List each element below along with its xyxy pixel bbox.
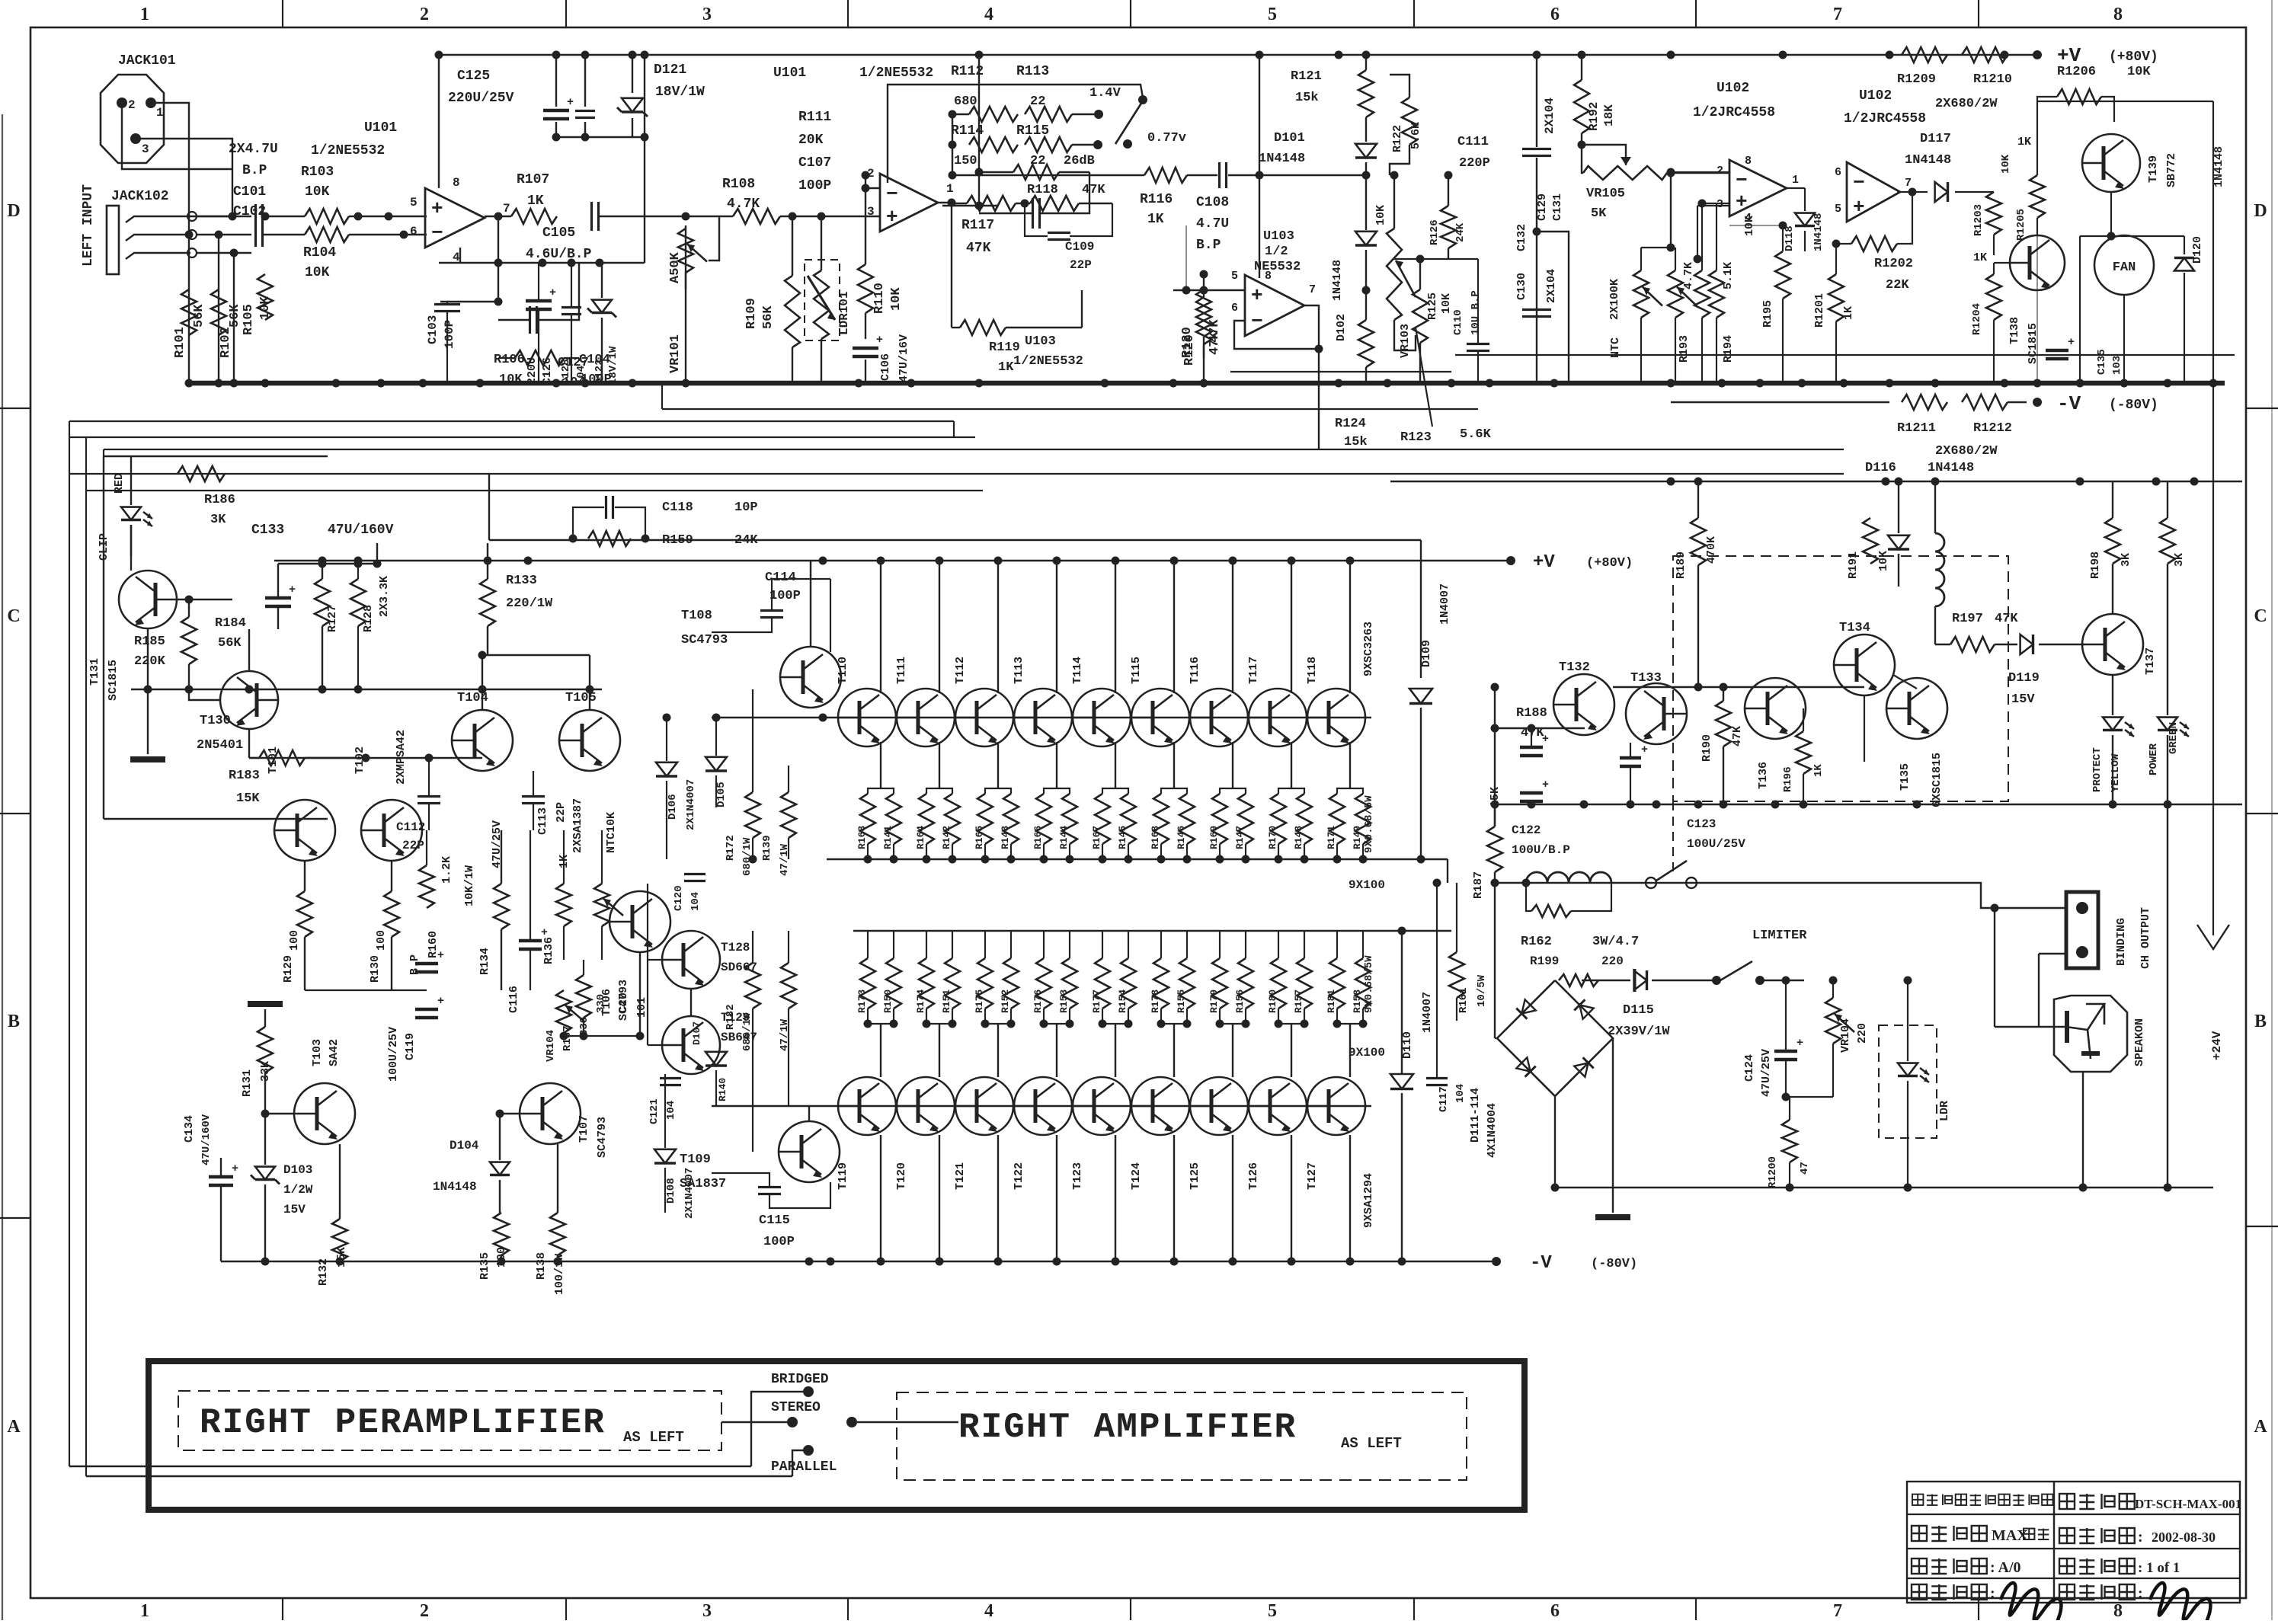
svg-text:1: 1 xyxy=(140,5,149,24)
svg-text:T132: T132 xyxy=(1559,660,1590,675)
title block page row xyxy=(2059,1558,2075,1574)
svg-text:9X0.68/5W: 9X0.68/5W xyxy=(1363,795,1375,853)
svg-text:LEFT INPUT: LEFT INPUT xyxy=(81,184,96,267)
svg-text:26dB: 26dB xyxy=(1064,154,1095,168)
svg-text:C120: C120 xyxy=(673,885,685,911)
svg-text:3: 3 xyxy=(702,5,712,24)
svg-text:R170: R170 xyxy=(1267,826,1278,849)
scan edge line left xyxy=(2,114,3,1620)
resistor R135 100 vertical xyxy=(494,1213,509,1255)
svg-text:10P: 10P xyxy=(734,500,758,515)
svg-text:R135: R135 xyxy=(478,1252,491,1280)
resistor R193 4.7K vertical xyxy=(1694,270,1710,318)
transistor T132 xyxy=(1553,674,1614,735)
svg-text:4.7K: 4.7K xyxy=(727,197,760,212)
resistor pair under T113 xyxy=(1036,794,1051,844)
svg-text:R197: R197 xyxy=(1952,612,1983,626)
feedback R106/C104 loop xyxy=(529,306,531,334)
resistor R161 10/5W vertical xyxy=(1449,952,1464,998)
svg-text:10K/1W: 10K/1W xyxy=(463,865,476,906)
svg-text:9X0.68/5W: 9X0.68/5W xyxy=(1363,955,1375,1013)
svg-text:SA1837: SA1837 xyxy=(680,1177,726,1191)
svg-text:10K: 10K xyxy=(2000,154,2012,174)
transistor T120 xyxy=(897,1077,955,1135)
svg-text:100/1W: 100/1W xyxy=(553,1254,566,1295)
resistor R111 20K xyxy=(979,171,1013,173)
+V +80V terminal xyxy=(2033,50,2042,59)
zener D121 18V/1W xyxy=(622,98,643,112)
transistor T101 xyxy=(274,800,335,861)
svg-text:R172: R172 xyxy=(725,835,737,861)
svg-text:C127: C127 xyxy=(558,356,589,370)
bus row1 emitters xyxy=(827,858,1448,860)
svg-text:C107: C107 xyxy=(798,155,831,171)
svg-text:LIMITER: LIMITER xyxy=(1752,929,1807,943)
grid ticks left xyxy=(0,408,30,409)
svg-text:47: 47 xyxy=(1799,1162,1811,1175)
svg-text:6: 6 xyxy=(1231,302,1238,315)
svg-text:24K: 24K xyxy=(734,533,758,548)
diode D120 xyxy=(2174,258,2194,271)
svg-text:1K: 1K xyxy=(527,193,544,209)
svg-text:NTC: NTC xyxy=(1609,337,1622,358)
svg-text:220U/25V: 220U/25V xyxy=(448,91,514,106)
svg-text:T104: T104 xyxy=(457,691,488,705)
svg-text:R184: R184 xyxy=(215,616,246,631)
svg-text:D109: D109 xyxy=(1420,640,1433,667)
svg-text:C109: C109 xyxy=(1065,240,1094,254)
svg-text:2002-08-30: 2002-08-30 xyxy=(2152,1530,2216,1545)
electrolytic C134 47U/160V xyxy=(209,1175,233,1179)
svg-text:10K: 10K xyxy=(1440,293,1453,314)
svg-text:1K: 1K xyxy=(998,360,1014,375)
resistor R127 vertical xyxy=(315,579,330,626)
title block doc number label xyxy=(2059,1494,2075,1509)
transistor T126 xyxy=(1249,1077,1307,1135)
svg-text:+: + xyxy=(437,949,444,962)
transistor T133 xyxy=(1626,683,1687,744)
resistor pair under T119 bank2 xyxy=(860,958,875,1009)
svg-text:2X680/2W: 2X680/2W xyxy=(1935,97,1998,111)
wire speakon to bottom xyxy=(2082,1072,2084,1188)
svg-text:1K: 1K xyxy=(2017,136,2031,149)
svg-text:R114: R114 xyxy=(951,123,984,139)
svg-text:T125: T125 xyxy=(1189,1162,1201,1190)
svg-text:0.77v: 0.77v xyxy=(1147,131,1186,145)
svg-text:D121: D121 xyxy=(654,62,686,78)
mid bus 9X100 xyxy=(853,930,1451,932)
svg-text:C121: C121 xyxy=(648,1098,661,1124)
scan edge line right xyxy=(2271,0,2273,1620)
svg-text:2XSA1387: 2XSA1387 xyxy=(571,798,584,853)
svg-text:8: 8 xyxy=(2113,1601,2123,1620)
svg-text:NTC10K: NTC10K xyxy=(605,812,618,853)
transistor T127 xyxy=(1307,1077,1365,1135)
svg-text:1: 1 xyxy=(156,106,164,120)
zener D122 18V/1W xyxy=(592,300,612,313)
svg-text:R152: R152 xyxy=(1000,989,1011,1013)
svg-text:15V: 15V xyxy=(2011,692,2035,707)
transistor T124 xyxy=(1131,1077,1189,1135)
dashed protection box xyxy=(1673,556,2008,801)
svg-text:T107: T107 xyxy=(577,1115,590,1143)
resistor pair under T117 xyxy=(1271,794,1286,844)
-V -80V rail xyxy=(1671,401,1889,403)
svg-text:C: C xyxy=(2254,606,2267,626)
svg-text:15k: 15k xyxy=(1295,91,1319,105)
svg-text:R156: R156 xyxy=(1234,989,1246,1013)
svg-text:SPEAKON: SPEAKON xyxy=(2133,1018,2146,1066)
wire output line to limiter xyxy=(1495,882,1691,884)
wire VR104 node xyxy=(564,1035,640,1037)
svg-text:1N4148: 1N4148 xyxy=(1331,260,1344,301)
svg-text:8: 8 xyxy=(453,176,460,190)
svg-text:100U/25V: 100U/25V xyxy=(387,1027,400,1082)
svg-text:D101: D101 xyxy=(1274,131,1305,145)
svg-text:+: + xyxy=(1796,1037,1803,1050)
resistor R113 22 xyxy=(1025,107,1072,122)
svg-text:220: 220 xyxy=(1601,954,1624,968)
svg-text:22K: 22K xyxy=(1886,278,1909,293)
svg-text:SC1815: SC1815 xyxy=(107,660,120,701)
wire VR105 to U102 pin2 xyxy=(1667,172,1729,174)
svg-text:R198: R198 xyxy=(2089,551,2102,579)
svg-text:R199: R199 xyxy=(1530,954,1559,968)
capacitor C112 22P xyxy=(418,795,440,798)
svg-text:(+80V): (+80V) xyxy=(1586,556,1633,571)
svg-text:220U: 220U xyxy=(526,357,539,385)
svg-text:A: A xyxy=(7,1417,21,1437)
svg-text::: : xyxy=(2138,1529,2143,1546)
capacitor C121 104 xyxy=(660,1077,681,1079)
svg-text:B.P: B.P xyxy=(242,163,267,178)
svg-text:22P: 22P xyxy=(555,802,568,823)
svg-text:C124: C124 xyxy=(1743,1054,1756,1082)
svg-text:R174: R174 xyxy=(915,989,926,1013)
resistor R121 15k vertical xyxy=(1358,70,1374,117)
wire C122 node xyxy=(1495,727,1585,729)
pot VR104 330 xyxy=(556,990,571,1033)
resistor R128 vertical xyxy=(350,579,366,626)
svg-text:15k: 15k xyxy=(1344,435,1368,449)
svg-text:T108: T108 xyxy=(681,609,712,623)
diode D110 1N4007 xyxy=(1390,1074,1413,1089)
transistor T106 SC4793 xyxy=(609,891,670,952)
svg-text:D118: D118 xyxy=(1784,225,1796,251)
resistor R116 1K xyxy=(1144,168,1187,183)
resistor R125 10K vertical xyxy=(1413,289,1428,343)
svg-text:3: 3 xyxy=(142,142,149,156)
svg-text:680/1W: 680/1W xyxy=(741,1012,753,1051)
svg-text:1K: 1K xyxy=(1812,764,1825,777)
transistor T117 xyxy=(1249,689,1307,746)
svg-text:R101: R101 xyxy=(173,327,187,358)
transistor T105 xyxy=(559,710,620,771)
svg-text:R102: R102 xyxy=(219,327,233,358)
svg-text:T128: T128 xyxy=(721,941,750,954)
svg-text:3: 3 xyxy=(702,1601,712,1620)
svg-text:B: B xyxy=(8,1012,20,1031)
svg-text:+: + xyxy=(567,96,574,109)
diode chain D101 xyxy=(1365,54,1367,70)
wire vertical R112 bank tie xyxy=(952,114,953,175)
svg-text:R195: R195 xyxy=(1761,300,1774,328)
svg-text:10K: 10K xyxy=(889,287,904,311)
svg-text:1/2NE5532: 1/2NE5532 xyxy=(311,143,385,158)
svg-text:R148: R148 xyxy=(1293,826,1304,849)
svg-text:4X1N4004: 4X1N4004 xyxy=(1486,1103,1499,1158)
wire to R103/R104 xyxy=(264,216,305,217)
svg-text:C20: C20 xyxy=(617,993,630,1013)
wire T108 emitter to base line xyxy=(810,561,811,647)
svg-text:BINDING: BINDING xyxy=(2115,918,2128,966)
svg-text:A: A xyxy=(2254,1417,2267,1437)
svg-text:VR105: VR105 xyxy=(1586,187,1625,201)
svg-text:R168: R168 xyxy=(1150,826,1161,849)
svg-text:D122: D122 xyxy=(593,359,606,385)
svg-text:+: + xyxy=(876,334,883,347)
wire U103b out xyxy=(1304,305,1319,349)
svg-text:6: 6 xyxy=(1550,1601,1560,1620)
resistor R118 47K xyxy=(1030,196,1079,211)
svg-text:T115: T115 xyxy=(1130,657,1143,684)
svg-text:1/2W: 1/2W xyxy=(283,1183,313,1197)
resistor R159 24K inline xyxy=(588,531,631,546)
wire loop vertical right xyxy=(2212,101,2214,935)
wire bridge left to R187 xyxy=(1494,883,1496,1038)
svg-text:2X39V/1W: 2X39V/1W xyxy=(1608,1025,1670,1039)
BINDING connector xyxy=(2066,892,2098,968)
svg-text:+V: +V xyxy=(2057,44,2081,67)
wire loop verticals left xyxy=(69,421,70,1466)
svg-text:R110: R110 xyxy=(872,283,887,314)
wire led to T131 xyxy=(130,456,132,488)
resistor R197 47K xyxy=(1950,637,1995,652)
svg-text:R116: R116 xyxy=(1140,192,1173,207)
svg-text:104: 104 xyxy=(562,376,586,390)
svg-text:C134: C134 xyxy=(183,1115,196,1143)
U101b pin2 wire xyxy=(865,187,880,189)
svg-text:C113: C113 xyxy=(536,807,549,835)
wire left mid join xyxy=(305,989,427,991)
svg-text:4: 4 xyxy=(984,5,993,24)
svg-text:T110: T110 xyxy=(837,657,849,684)
svg-text:10K: 10K xyxy=(258,296,273,320)
svg-text:T138: T138 xyxy=(2008,317,2021,344)
svg-text:5: 5 xyxy=(1268,5,1277,24)
svg-text:R1210: R1210 xyxy=(1973,72,2012,87)
svg-text:R150: R150 xyxy=(882,989,894,1013)
svg-text:T131: T131 xyxy=(88,658,101,686)
svg-text:1N4007: 1N4007 xyxy=(1421,992,1434,1033)
svg-text:9XSC3263: 9XSC3263 xyxy=(1362,622,1375,676)
resistor R190 47K vertical xyxy=(1716,701,1731,746)
svg-text:8: 8 xyxy=(1745,155,1752,168)
svg-text:C115: C115 xyxy=(759,1213,790,1228)
svg-text:220P: 220P xyxy=(1459,156,1490,171)
resistor R1203 vertical xyxy=(1986,192,2001,235)
svg-text:R125: R125 xyxy=(1426,293,1439,320)
wire U102b out to D117 xyxy=(1897,191,1928,193)
svg-text:D119: D119 xyxy=(2008,671,2040,686)
svg-text:4.7U: 4.7U xyxy=(1196,216,1229,232)
svg-text:R155: R155 xyxy=(1176,989,1187,1013)
svg-text:T137: T137 xyxy=(2144,647,2157,675)
wire U103 output runs xyxy=(1455,354,2235,356)
svg-text:47K: 47K xyxy=(1208,331,1222,355)
svg-text:2X3.3K: 2X3.3K xyxy=(378,576,391,617)
svg-text:: A/0: : A/0 xyxy=(1990,1559,2021,1576)
svg-text:C110: C110 xyxy=(1452,309,1464,335)
pot VR105 5K xyxy=(1583,166,1667,180)
svg-text:C: C xyxy=(7,606,20,626)
resistor pair under T123 bank2 xyxy=(1095,958,1110,1009)
svg-text:1.2K: 1.2K xyxy=(440,856,453,884)
svg-text:T122: T122 xyxy=(1013,1162,1025,1190)
svg-text:D103: D103 xyxy=(283,1163,312,1177)
svg-text:R186: R186 xyxy=(204,493,235,507)
wire fan circuit xyxy=(2036,235,2038,383)
pot VR103 10K xyxy=(1387,229,1402,320)
pot NTC10K xyxy=(594,884,609,926)
svg-text:T133: T133 xyxy=(1630,671,1662,686)
svg-text:+: + xyxy=(1542,733,1549,746)
svg-text:D105: D105 xyxy=(715,782,728,807)
wire T130 base row xyxy=(249,757,482,759)
wire loop line 553 xyxy=(69,420,954,422)
svg-text:C125: C125 xyxy=(457,69,490,84)
svg-text:47U/160V: 47U/160V xyxy=(200,1114,213,1165)
svg-text:103: 103 xyxy=(2111,356,2123,375)
svg-text:R179: R179 xyxy=(1208,989,1220,1013)
LED PROTECT YELLOW xyxy=(2103,718,2123,730)
svg-text:1: 1 xyxy=(140,1601,149,1620)
svg-text:20K: 20K xyxy=(798,133,824,148)
grid ticks top xyxy=(282,0,283,27)
svg-text:R175: R175 xyxy=(974,989,985,1013)
svg-text:100P: 100P xyxy=(769,589,801,603)
svg-text:D116: D116 xyxy=(1865,461,1896,475)
svg-text:−: − xyxy=(431,222,443,245)
svg-text:T124: T124 xyxy=(1130,1162,1143,1190)
svg-text:R138: R138 xyxy=(535,1252,548,1280)
+V mid rail xyxy=(274,560,1506,561)
transistor T115 xyxy=(1131,689,1189,746)
svg-text:C129: C129 xyxy=(1536,193,1549,221)
svg-text:1/2NE5532: 1/2NE5532 xyxy=(859,66,933,81)
wire jack101 to input nodes xyxy=(122,103,232,169)
svg-text:+: + xyxy=(1853,196,1865,219)
svg-text:R1202: R1202 xyxy=(1874,257,1913,271)
resistor R132 15K vertical xyxy=(332,1219,347,1261)
wire protection to bottom xyxy=(2167,804,2168,1188)
svg-text:1N4148: 1N4148 xyxy=(1928,461,1974,475)
svg-text:R187: R187 xyxy=(1472,871,1485,899)
resistor R133 220/1W vertical xyxy=(480,579,495,626)
title block check row xyxy=(2059,1584,2075,1600)
resistor R186 3K xyxy=(178,466,225,481)
fan motor xyxy=(2094,235,2154,295)
transistor T123 xyxy=(1073,1077,1131,1135)
svg-text:R106: R106 xyxy=(494,353,525,367)
resistor R1206 10K xyxy=(2057,89,2101,104)
svg-text:T135: T135 xyxy=(1899,763,1912,791)
svg-text:R1204: R1204 xyxy=(1971,303,1983,335)
svg-text:R158: R158 xyxy=(1352,989,1363,1013)
svg-text:R182: R182 xyxy=(725,1004,737,1030)
svg-text:+: + xyxy=(431,197,443,220)
svg-text:C108: C108 xyxy=(1196,195,1229,210)
svg-text:FAN: FAN xyxy=(2113,261,2136,275)
svg-text:5.1K: 5.1K xyxy=(1722,262,1735,289)
svg-text:56K: 56K xyxy=(218,636,242,651)
resistor R112 680 xyxy=(969,107,1018,122)
transistor T125 xyxy=(1190,1077,1248,1135)
svg-text:R1200: R1200 xyxy=(1767,1156,1779,1188)
CLIP circuit box xyxy=(104,456,328,819)
R123 pointer line xyxy=(1416,328,1432,427)
wire mid node line xyxy=(131,689,602,690)
svg-text:RIGHT PERAMPLIFIER: RIGHT PERAMPLIFIER xyxy=(200,1403,606,1443)
svg-text:7: 7 xyxy=(1833,5,1842,24)
svg-text:1N4148: 1N4148 xyxy=(1812,213,1825,251)
capacitor C114 100P xyxy=(760,609,783,612)
svg-text:R104: R104 xyxy=(303,245,336,261)
resistor R110 10K vertical xyxy=(858,264,873,313)
transistor T109 SA1837 xyxy=(779,1121,840,1182)
svg-text:1/2JRC4558: 1/2JRC4558 xyxy=(1844,111,1926,126)
svg-text:AS LEFT: AS LEFT xyxy=(1341,1435,1402,1452)
svg-text:T139: T139 xyxy=(2147,155,2160,183)
svg-text:6: 6 xyxy=(1550,5,1560,24)
svg-text:C131: C131 xyxy=(1551,193,1564,221)
diode D105 xyxy=(705,757,727,771)
svg-text:+: + xyxy=(1251,284,1263,307)
svg-text:1/2JRC4558: 1/2JRC4558 xyxy=(1693,105,1775,120)
svg-text:+: + xyxy=(1641,743,1648,756)
svg-text:101: 101 xyxy=(635,997,648,1018)
resistor 3K right vertical xyxy=(2160,518,2175,564)
svg-text:JACK102: JACK102 xyxy=(111,189,169,204)
resistor R122 5.6K jog xyxy=(1390,75,1409,98)
svg-text:R103: R103 xyxy=(301,165,334,180)
svg-text:18K: 18K xyxy=(1602,104,1616,126)
svg-text:R111: R111 xyxy=(798,110,831,125)
wire binding lower loop xyxy=(2039,953,2066,954)
svg-text:1K: 1K xyxy=(1842,306,1855,320)
resistor R115 22 xyxy=(1025,137,1072,152)
diode D108 xyxy=(654,1149,676,1163)
wire input node verticals xyxy=(188,216,190,383)
svg-text:CH OUTPUT: CH OUTPUT xyxy=(2139,907,2152,969)
C118 R159 feedback pair xyxy=(605,496,607,519)
svg-text:R164: R164 xyxy=(915,826,926,849)
svg-text:T103: T103 xyxy=(311,1039,324,1066)
svg-text:R185: R185 xyxy=(134,635,165,649)
resistor R198 3K vertical xyxy=(2105,518,2120,564)
svg-text:R191: R191 xyxy=(1847,551,1860,579)
svg-text:2X4.7U: 2X4.7U xyxy=(229,142,278,157)
svg-text:R136: R136 xyxy=(542,937,555,964)
svg-text:5: 5 xyxy=(1231,270,1238,283)
svg-text:C123: C123 xyxy=(1687,817,1716,831)
resistor pair under T114 xyxy=(1095,794,1110,844)
svg-text:R130: R130 xyxy=(369,955,382,983)
resistor R104 xyxy=(305,227,349,242)
svg-text:T121: T121 xyxy=(954,1162,967,1190)
LED POWER GREEN xyxy=(2158,718,2177,730)
svg-text:C114: C114 xyxy=(765,571,796,585)
